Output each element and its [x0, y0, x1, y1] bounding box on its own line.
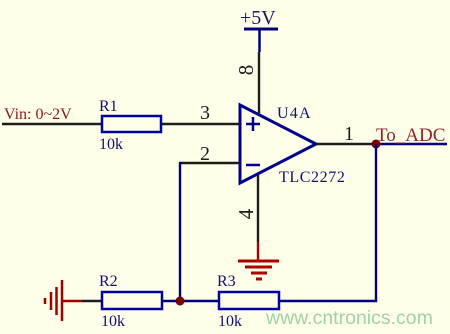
resistor R3: [219, 292, 279, 309]
wire pin 8 vertical: [258, 52, 260, 115]
wire output feedback vertical: [375, 144, 377, 301]
resistor R2: [102, 292, 162, 309]
junction node output: [372, 140, 381, 149]
power +5V stub wire: [258, 29, 261, 52]
svg-text:To_ADC: To_ADC: [376, 125, 445, 146]
ground stub red: [257, 242, 259, 261]
wire ground red stub: [62, 300, 82, 302]
svg-text:8: 8: [234, 65, 258, 76]
svg-text:1: 1: [344, 123, 354, 145]
op-amp U4A triangle: [240, 105, 316, 183]
wire output to right edge: [376, 143, 447, 145]
wire R1 to op-amp pin 3: [161, 123, 240, 125]
power +5V bar: [244, 28, 278, 31]
svg-text:Vin: 0~2V: Vin: 0~2V: [4, 106, 72, 123]
wire feedback vertical: [179, 162, 181, 301]
wire ground to R2: [82, 300, 102, 302]
svg-text:R2: R2: [99, 273, 118, 290]
resistor R1: [102, 116, 161, 132]
op-amp minus input marker: [246, 164, 260, 167]
svg-text:10k: 10k: [101, 313, 125, 330]
svg-text:www.cntronics.com: www.cntronics.com: [265, 307, 433, 329]
wire bottom right horizontal: [279, 300, 377, 302]
svg-text:R3: R3: [217, 273, 236, 290]
svg-text:2: 2: [200, 143, 210, 165]
op-amp plus input marker: [246, 117, 260, 131]
svg-text:+5V: +5V: [240, 7, 276, 29]
svg-text:U4A: U4A: [277, 105, 312, 122]
svg-text:4: 4: [234, 208, 258, 219]
junction node feedback: [176, 297, 185, 306]
ground earth symbol: [238, 261, 279, 279]
wire R2 to R3: [162, 300, 219, 302]
svg-text:10k: 10k: [218, 313, 242, 330]
wire op-amp pin 2 horizontal: [179, 162, 240, 164]
wire Vin to R1: [2, 123, 102, 125]
wire op-amp output pin 1: [316, 143, 376, 145]
svg-text:TLC2272: TLC2272: [279, 169, 345, 186]
svg-text:3: 3: [200, 102, 210, 124]
ground left AGND symbol: [45, 280, 62, 321]
svg-text:R1: R1: [99, 98, 118, 115]
svg-text:10k: 10k: [99, 136, 123, 153]
wire pin 4 vertical: [257, 175, 259, 242]
